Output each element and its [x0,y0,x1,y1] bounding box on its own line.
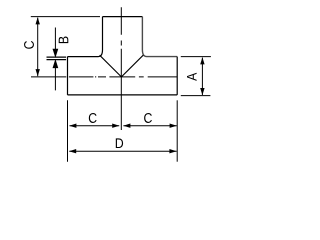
extension line A bottom [181,95,211,97]
arrowhead down (C bottom) [36,69,40,76]
label D (bottom) [116,138,123,148]
tee body: branch right wall with fillet into run top-right surface [142,17,177,57]
arrowhead up (C top) [36,17,40,24]
label C (vertical, rotated) [24,41,34,49]
tee body: run right end edge [176,57,178,95]
dimension line C (bottom right half) [123,125,176,127]
arrowhead left (C right half) [123,124,130,128]
tee body: branch left wall with fillet into run top-left surface [68,17,103,57]
arrowhead down (A bottom) [200,88,204,95]
B wall-thickness line upper [47,56,67,58]
label C (bottom right) [144,113,152,123]
dimension line C (vertical left) [37,18,39,77]
B wall-thickness line lower [47,59,67,61]
arrowhead right (C right half) [170,124,177,128]
arrowhead left (D) [69,149,76,153]
tee body: run left end edge [67,57,69,95]
extension line A top [181,56,211,58]
label C (bottom left) [89,113,97,123]
crotch line left (V) [100,55,122,77]
vertical centerline (dash-dot) [120,7,122,130]
arrowhead left (C left half) [69,124,76,128]
tee body: run bottom edge [68,94,178,96]
dimension line A (vertical right) [201,58,203,95]
dimension line C (bottom left half) [70,125,120,127]
dimension B upper arrow (down) [53,28,57,57]
arrowhead up (A top) [200,57,204,64]
extension line bottom-right [176,100,178,161]
dimension line D (bottom) [69,150,176,152]
extension line for C (top, from branch corner to left) [31,16,100,18]
crotch line right (V) [121,55,143,77]
dimension B lower arrow (up) [53,61,57,91]
arrowhead right (D) [169,149,176,153]
label A (rotated) [187,73,197,81]
horizontal centerline (dash-dot) [31,76,177,78]
arrowhead right (C left half) [112,124,119,128]
tee body: branch top edge [103,16,143,18]
label B (rotated) [59,37,69,44]
extension line bottom-left [67,100,69,161]
